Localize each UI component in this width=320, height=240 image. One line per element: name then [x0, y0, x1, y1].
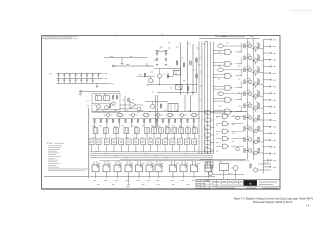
- clock cell labels: [247, 113, 249, 115]
- resistor R25: [190, 61, 191, 65]
- DAC current cells Q10-Q21: [244, 44, 245, 48]
- wire vertical x193: [192, 44, 194, 95]
- cell rail x247.5: [247, 39, 249, 160]
- border frame: [42, 36, 281, 190]
- transistor Q5: [150, 104, 154, 108]
- wire v x185 drop: [184, 95, 186, 112]
- transistor Q32: [209, 172, 213, 176]
- resistor R32: [116, 96, 117, 100]
- wire drop x128.5: [128, 177, 130, 185]
- transistor Q7: [105, 106, 109, 110]
- wire h y108.8: [120, 108, 137, 110]
- ic U7 box: [205, 162, 213, 168]
- sub-block labels: [95, 94, 97, 96]
- wire h y57.5: [104, 57, 147, 59]
- wire h y164: [258, 163, 271, 165]
- ic U12 box: [220, 164, 229, 171]
- ic U8b box: [104, 96, 110, 101]
- wire junctions: [157, 51, 158, 52]
- revision table: [42, 36, 77, 39]
- row3 bottom rail: [90, 176, 215, 178]
- latch cell row U23-U37: [89, 139, 94, 145]
- row3 pin labels: [93, 179, 96, 181]
- output IC row U40-U50: [92, 165, 99, 172]
- bypass capacitor bank C1-C15: [57, 72, 104, 74]
- resistor band R40-R59: [92, 118, 200, 120]
- resistor R19: [137, 76, 154, 78]
- row1 labels: [93, 125, 96, 127]
- wire input y91.5: [79, 91, 120, 93]
- bottom connector labels: [97, 183, 100, 185]
- wires to title block: [210, 168, 212, 172]
- wire h y109: [96, 108, 120, 110]
- wire h y159.5: [200, 159, 246, 161]
- resistor R26: [196, 58, 197, 62]
- ic U8a box: [96, 96, 102, 101]
- wire h y92: [157, 92, 197, 94]
- wire left vertical rail: [88, 108, 90, 178]
- op-amp U2: [130, 102, 136, 109]
- resistor R33: [109, 105, 110, 108]
- wire to edge y170: [258, 169, 271, 171]
- ic U1 box: [174, 70, 181, 75]
- clock gate ovals U5A-U5F: [204, 110, 210, 114]
- labels bottom right: [219, 161, 222, 163]
- wire h y68.5: [154, 68, 181, 70]
- transistor Q8: [112, 102, 115, 105]
- driver cell row U10-U22: [93, 128, 98, 134]
- transistor Q1: [157, 74, 161, 78]
- wire bottom-left rail: [44, 176, 89, 178]
- wire v x122: [121, 58, 123, 63]
- resistor R23: [176, 61, 177, 65]
- clock NAND column U6: [222, 114, 227, 118]
- connector stubs to P1: [263, 39, 271, 41]
- svg-text:(Schematic Diagram, A8/A3-1) R: (Schematic Diagram, A8/A3-1) Rev B: [253, 201, 293, 204]
- right rail: [262, 40, 264, 174]
- frame bottom heavy line: [42, 188, 281, 190]
- fold mark: [115, 34, 117, 38]
- faint page header text: [290, 10, 312, 12]
- node stub: [146, 63, 148, 66]
- resistor R24: [183, 63, 184, 67]
- data bus lines: [90, 151, 213, 153]
- wire v x190 drop: [190, 95, 192, 112]
- wires band to row1: [94, 123, 96, 128]
- transistor Q31: [236, 147, 240, 151]
- resistor R31: [112, 96, 113, 100]
- transistor Q1b: [149, 79, 153, 83]
- ic U9 box: [168, 104, 178, 112]
- capacitor stack C21 C22: [156, 51, 158, 53]
- gate-cell link wires: [240, 46, 242, 52]
- component value labels: [160, 46, 163, 48]
- wire h y174.5: [213, 174, 244, 176]
- sub-block outline: [92, 94, 120, 112]
- wire h y76.5: [168, 76, 174, 78]
- wire W1 with arrow: [112, 65, 154, 67]
- svg-text:NOTES:: NOTES:: [47, 143, 53, 145]
- connector J1 stub: [80, 93, 82, 95]
- wire v x125: [124, 96, 126, 112]
- wire h y105: [120, 104, 130, 106]
- resistor R34: [128, 98, 129, 102]
- crystal Y1: [233, 166, 238, 171]
- wire vertical x187.5: [187, 41, 189, 95]
- wire h y51: [157, 50, 166, 52]
- capacitor stack C23 C24: [165, 51, 167, 53]
- cell rail x253.5: [253, 39, 255, 160]
- analog cluster labels: [159, 47, 161, 49]
- transistor Q30: [236, 116, 240, 120]
- clock driver cells Q22-Q29: [244, 116, 245, 120]
- resistor R29: [196, 74, 197, 78]
- resistor R27 box-x: [176, 85, 183, 90]
- resistor R30: [160, 104, 161, 108]
- wire h y84.6: [147, 84, 197, 86]
- wire v x157 drop: [155, 95, 157, 128]
- resistor R28: [187, 87, 188, 91]
- cell labels: [247, 42, 249, 44]
- inverter column U3: [218, 44, 224, 48]
- wire h y103: [92, 102, 112, 104]
- wire v x196.5: [196, 58, 198, 93]
- resistor R60: [250, 164, 251, 168]
- wire h y111.5: [92, 111, 246, 113]
- transistor Q9: [137, 107, 141, 111]
- fold mark 2: [161, 33, 163, 36]
- wire vertical x180.6: [180, 43, 182, 96]
- wire h y102: [145, 101, 168, 103]
- diode-resistor row y115: [106, 113, 109, 116]
- diode CR1: [167, 73, 169, 80]
- DAC input bus lines: [198, 42, 200, 155]
- NAND gate column U2A-U2F: [225, 49, 231, 54]
- transistor Q6: [97, 105, 101, 109]
- title block: [196, 178, 280, 180]
- transistor Q33: [253, 168, 257, 172]
- bus top rail: [215, 36, 245, 38]
